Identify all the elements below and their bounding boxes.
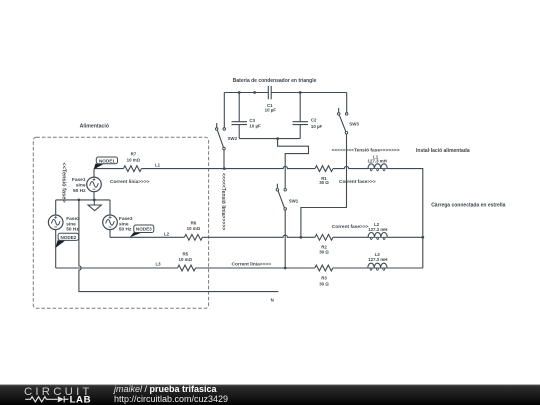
svg-text:L3: L3 xyxy=(155,261,161,266)
svg-text:Fase3: Fase3 xyxy=(119,216,133,222)
svg-text:SW2: SW2 xyxy=(228,136,238,141)
svg-text:<<Tensió fase>: <<Tensió fase> xyxy=(61,162,67,203)
svg-text:N: N xyxy=(271,298,274,303)
svg-text:C2: C2 xyxy=(311,118,317,123)
svg-text:Fase2: Fase2 xyxy=(66,216,80,222)
svg-text:NODE2: NODE2 xyxy=(60,235,76,240)
svg-text:R2: R2 xyxy=(321,244,327,249)
svg-text:SW3: SW3 xyxy=(349,121,359,126)
svg-text:NODE1: NODE1 xyxy=(99,158,115,163)
svg-text:10 mΩ: 10 mΩ xyxy=(127,158,141,163)
svg-text:http://circuitlab.com/cuz3429: http://circuitlab.com/cuz3429 xyxy=(114,394,228,404)
svg-text:L1: L1 xyxy=(155,162,161,167)
svg-text:Càrrega connectada en estrella: Càrrega connectada en estrella xyxy=(431,202,505,208)
svg-text:30 Ω: 30 Ω xyxy=(319,180,329,185)
svg-text:127.3 mH: 127.3 mH xyxy=(368,227,387,232)
svg-text:R3: R3 xyxy=(321,276,327,281)
svg-text:10 mΩ: 10 mΩ xyxy=(179,257,193,262)
svg-text:50 Hz: 50 Hz xyxy=(73,188,86,194)
svg-text:30 Ω: 30 Ω xyxy=(319,282,329,287)
svg-text:10 µF: 10 µF xyxy=(265,108,277,113)
svg-text:sine: sine xyxy=(66,221,76,227)
svg-text:50 Hz: 50 Hz xyxy=(66,227,79,233)
svg-text:Instal·lació alimentada: Instal·lació alimentada xyxy=(416,148,470,154)
svg-text:NODE3: NODE3 xyxy=(136,227,152,232)
svg-text:50 Hz: 50 Hz xyxy=(119,227,132,233)
svg-text:SW1: SW1 xyxy=(289,199,299,204)
svg-text:127.3 mH: 127.3 mH xyxy=(368,257,387,262)
svg-text:C3: C3 xyxy=(249,118,255,123)
svg-text:Alimentació: Alimentació xyxy=(80,124,109,130)
svg-text:Corrent línia>>>>: Corrent línia>>>> xyxy=(110,179,150,185)
svg-text:jmaikel / prueba trifasica: jmaikel / prueba trifasica xyxy=(113,384,218,394)
svg-text:R6: R6 xyxy=(191,220,197,225)
svg-text:<<<<<Tensió línia>>>>>: <<<<<Tensió línia>>>>> xyxy=(220,173,226,230)
svg-text:10 mΩ: 10 mΩ xyxy=(187,226,201,231)
svg-text:Corrent fase>>>: Corrent fase>>> xyxy=(339,179,376,185)
svg-text:L2: L2 xyxy=(164,231,170,236)
svg-text:sine: sine xyxy=(76,183,86,189)
svg-text:<<<<<<<<Tensió fase>>>>>>>: <<<<<<<<Tensió fase>>>>>>> xyxy=(332,147,400,153)
svg-text:30 Ω: 30 Ω xyxy=(319,250,329,255)
svg-text:127.3 mH: 127.3 mH xyxy=(368,159,387,164)
svg-text:10 µF: 10 µF xyxy=(311,124,323,129)
svg-text:R5: R5 xyxy=(182,251,188,256)
svg-text:sine: sine xyxy=(119,221,129,227)
svg-text:Fase1: Fase1 xyxy=(72,177,86,183)
svg-text:10 µF: 10 µF xyxy=(249,124,261,129)
svg-text:Corrent línia>>>>: Corrent línia>>>> xyxy=(232,262,272,268)
svg-text:R7: R7 xyxy=(131,151,137,156)
svg-text:Bateria de condensador en tria: Bateria de condensador en triangle xyxy=(233,78,317,84)
svg-text:Corrent fase>>>: Corrent fase>>> xyxy=(332,224,369,230)
svg-text:LAB: LAB xyxy=(70,395,92,405)
